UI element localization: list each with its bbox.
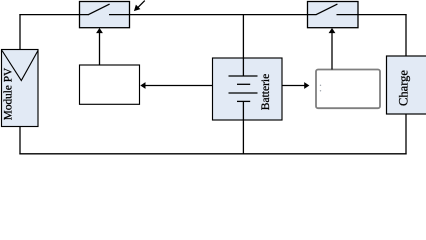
switch S1 blade [89,4,110,15]
wire: Charge bottom vertical [405,114,407,154]
switch box S2 [308,2,359,28]
wire: Module PV bottom vertical [19,127,21,155]
switch S2 blade [316,4,337,15]
wire: top horizontal to S1 pivot [19,14,89,16]
wire: Batterie top vertical [242,14,244,76]
Module PV box [2,50,39,127]
controller box B2 [316,70,380,109]
arrow B2 to S2 [329,28,336,70]
wire: right vertical to Charge top [405,14,407,56]
battery symbol plates [229,76,258,101]
regulator box B1 [80,65,140,104]
wire: top-left vertical into Module PV [19,14,21,50]
annotation arrow at S1 [134,1,145,12]
arrow Batterie to B1 [140,82,212,89]
switch box S1 [80,2,130,28]
wire: top horizontal S2 to right corner [337,14,407,16]
arrow B1 to S1 [96,28,103,65]
svg-text:Module PV: Module PV [3,67,15,120]
wire: top horizontal S1 to S2 pivot [109,14,317,16]
arrow Batterie to B2 [282,82,309,89]
Batterie box [213,58,283,120]
wire: Batterie bottom vertical [242,101,244,154]
svg-text:Batterie: Batterie [260,74,272,110]
Charge box [387,56,426,114]
svg-text:Charge: Charge [396,70,410,106]
wire: bottom horizontal [19,153,406,155]
